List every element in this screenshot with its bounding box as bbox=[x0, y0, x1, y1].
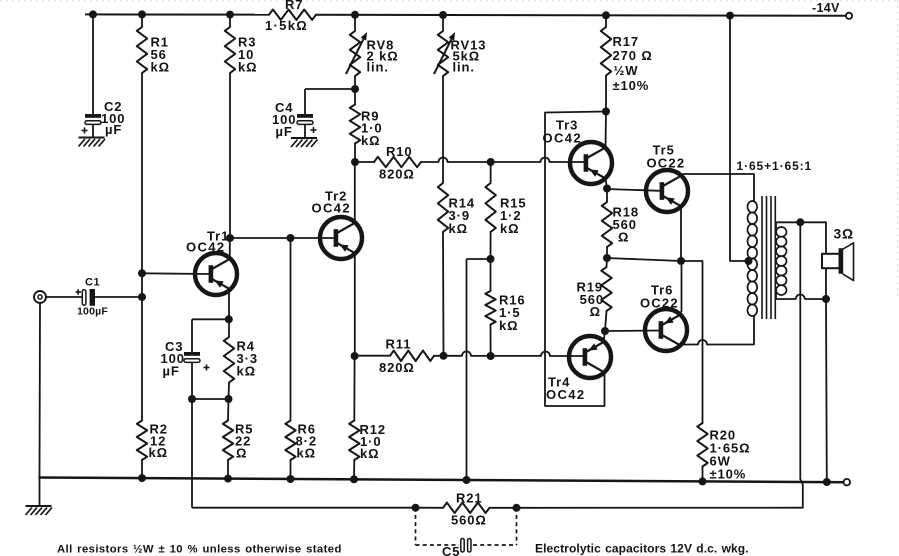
svg-text:1·65+1·65:1: 1·65+1·65:1 bbox=[737, 159, 813, 173]
resistor R6 8.2k bbox=[285, 421, 317, 461]
wire ground rail drop to earth bbox=[39, 478, 41, 506]
wire Tr3 collector up bbox=[605, 112, 608, 148]
resistor R14 3.9k bbox=[438, 183, 475, 236]
transistor Tr4 OC42 bbox=[546, 336, 611, 402]
svg-text:R7: R7 bbox=[285, 0, 303, 12]
wire R19 bottom to Tr6 base node bbox=[605, 311, 607, 331]
wire Tr4 emitter up to node bbox=[604, 331, 606, 342]
svg-text:±10%: ±10% bbox=[710, 467, 747, 482]
wire Tr5 collector to transformer primary top bbox=[681, 174, 754, 201]
svg-text:OC42: OC42 bbox=[546, 387, 586, 402]
svg-text:R10: R10 bbox=[386, 144, 413, 159]
wire feedback line secondary top to bottom rail bbox=[800, 222, 803, 507]
wire speaker return to ground rail bbox=[823, 268, 831, 486]
svg-text:270 Ω: 270 Ω bbox=[613, 48, 653, 63]
svg-text:Electrolytic capacitors 12V: Electrolytic capacitors 12V d.c. wkg. bbox=[535, 541, 749, 555]
resistor R15 1.2k bbox=[485, 162, 526, 236]
wire midpoint tap to ground rail bbox=[463, 259, 491, 484]
svg-text:kΩ: kΩ bbox=[237, 364, 256, 379]
capacitor C2 100uF bbox=[82, 99, 126, 137]
resistor R9 1.0k bbox=[350, 89, 383, 148]
transistor Tr2 OC42 bbox=[312, 189, 363, 260]
wire R14 bottom to R11 line bbox=[442, 232, 445, 356]
ground below C4 bbox=[291, 138, 318, 147]
wire Tr6 collector to transformer primary bottom bbox=[680, 316, 754, 345]
wire R16 bottom to R11 line bbox=[490, 325, 492, 357]
node R18/R19 midpoint bbox=[603, 254, 611, 262]
-14V supply terminal bbox=[812, 1, 852, 19]
svg-text:1·5kΩ: 1·5kΩ bbox=[265, 18, 308, 33]
svg-text:kΩ: kΩ bbox=[361, 133, 380, 148]
wire Tr3 emitter down to node bbox=[606, 179, 608, 189]
svg-text:µF: µF bbox=[105, 122, 122, 137]
transformer primary winding bbox=[748, 201, 758, 316]
svg-text:R21: R21 bbox=[456, 491, 483, 506]
resistor R7 1.5k inline in top rail bbox=[265, 0, 316, 33]
transistor Tr5 OC22 bbox=[646, 143, 688, 213]
wire Tr2 emitter down to R11 node bbox=[354, 254, 356, 356]
resistor R20 1.65 ohm 6W bbox=[697, 423, 750, 482]
node R15/R16 midpoint bbox=[487, 255, 495, 263]
scan artifact top edge bbox=[0, 0, 899, 2]
node Tr1 collector / R3 junction bbox=[226, 234, 234, 242]
wire C3 bottom to feedback node bbox=[188, 363, 196, 404]
wire R4 bottom to node bbox=[228, 383, 231, 400]
wire R6 to ground rail bbox=[287, 460, 295, 483]
node R15 tap on Tr3 base line bbox=[487, 158, 495, 166]
svg-text:OC22: OC22 bbox=[647, 156, 686, 171]
svg-text:OC42: OC42 bbox=[543, 131, 583, 146]
wire Tr1 emitter down bbox=[228, 291, 230, 320]
svg-text:OC22: OC22 bbox=[640, 296, 679, 311]
resistor R17 270 ohm bbox=[601, 11, 653, 93]
node R21 right / C5 branch bbox=[490, 504, 521, 512]
svg-text:R11: R11 bbox=[386, 337, 412, 352]
svg-text:kΩ: kΩ bbox=[499, 318, 518, 333]
svg-text:All resistors ½W ± 10 % unles: All resistors ½W ± 10 % unless otherwise… bbox=[57, 543, 342, 555]
resistor R10 820 ohm bbox=[355, 144, 421, 182]
wire R2 to ground rail bbox=[138, 460, 146, 482]
svg-text:C1: C1 bbox=[85, 277, 100, 289]
wire C4 to ground bbox=[304, 125, 306, 138]
wire Tr6 base from node bbox=[605, 330, 659, 333]
wire -14V top rail left section bbox=[85, 13, 269, 15]
wire feedback rail left section bbox=[192, 507, 416, 509]
resistor R4 3.3k bbox=[224, 319, 258, 382]
svg-text:kΩ: kΩ bbox=[360, 446, 379, 461]
svg-text:100µF: 100µF bbox=[77, 306, 108, 318]
wire -14V top rail right section bbox=[316, 15, 846, 16]
node Tr1 emitter junction bbox=[225, 315, 233, 323]
svg-text:Ω: Ω bbox=[590, 304, 601, 319]
svg-text:kΩ: kΩ bbox=[449, 221, 468, 236]
resistor R5 22 ohm bbox=[223, 399, 254, 461]
note all resistors rating bbox=[57, 543, 342, 555]
wire -14V rail to primary centre tap bbox=[726, 12, 748, 261]
variable resistor RV13 5k lin bbox=[434, 11, 486, 76]
wire Tr2 collector up to R9/R10 node bbox=[354, 162, 356, 222]
svg-text:820Ω: 820Ω bbox=[379, 167, 415, 182]
svg-text:kΩ: kΩ bbox=[149, 445, 168, 460]
wire C3/R4 bottom link bbox=[192, 395, 233, 403]
speaker 3 ohm bbox=[822, 227, 854, 281]
node speaker bottom junction bbox=[822, 295, 830, 303]
svg-text:±10%: ±10% bbox=[613, 78, 650, 93]
resistor R3 10k bbox=[225, 11, 258, 75]
transformer secondary winding bbox=[776, 227, 786, 295]
resistor R21 560 ohm bbox=[416, 491, 490, 528]
wire C2 to ground bbox=[92, 125, 94, 138]
node R6 tap on Tr2 base wire bbox=[287, 234, 295, 242]
resistor R11 820 ohm bbox=[355, 337, 434, 376]
svg-text:½W: ½W bbox=[614, 63, 639, 78]
resistor R12 1.0k bbox=[349, 352, 386, 461]
input jack bbox=[34, 291, 46, 303]
svg-text:kΩ: kΩ bbox=[151, 60, 170, 75]
transistor Tr3 OC42 bbox=[543, 118, 613, 185]
svg-text:kΩ: kΩ bbox=[238, 60, 257, 75]
node R21 left / C5 branch bbox=[412, 504, 420, 512]
wire feedback rail right section bbox=[517, 507, 803, 509]
wire feedback drop from C3 node to bottom feedback rail bbox=[191, 399, 193, 508]
wire Tr1 collector up to node bbox=[229, 238, 231, 258]
svg-text:820Ω: 820Ω bbox=[379, 360, 415, 375]
note electrolytic capacitors rating bbox=[535, 541, 749, 555]
wire R17 bottom to Tr3 collector node bbox=[605, 76, 607, 112]
resistor R16 1.5k bbox=[485, 259, 525, 333]
svg-text:OC42: OC42 bbox=[186, 240, 226, 255]
node Tr3 collector / R17 junction bbox=[602, 108, 610, 116]
wire R10 to Tr3 base with crossovers bbox=[421, 158, 584, 163]
node Tr3 emitter / R18 / Tr5 base bbox=[603, 185, 611, 193]
svg-text:Ω: Ω bbox=[236, 446, 247, 461]
capacitor C3 100uF emitter bypass bbox=[161, 339, 210, 379]
svg-text:kΩ: kΩ bbox=[297, 446, 316, 461]
resistor R1 56k bbox=[137, 10, 170, 74]
node feedback tap on secondary top bbox=[796, 218, 804, 226]
wire C2 branch from top rail bbox=[89, 10, 97, 114]
svg-text:kΩ: kΩ bbox=[500, 221, 519, 236]
svg-text:OC42: OC42 bbox=[312, 201, 352, 216]
wire R6 column drop bbox=[290, 238, 292, 421]
wire input jack to C1 bbox=[46, 296, 82, 298]
svg-text:lin.: lin. bbox=[367, 60, 389, 75]
svg-text:R17: R17 bbox=[613, 34, 640, 49]
resistor R2 12k bbox=[137, 421, 168, 461]
wire Tr1 collector node to Tr2 base bbox=[230, 237, 334, 239]
wire main ground rail bbox=[40, 478, 847, 483]
wire bias midpoint to emitter node bbox=[607, 258, 681, 261]
capacitor C4 100uF bbox=[272, 100, 317, 139]
wire R11 to Tr4 base with crossovers bbox=[434, 351, 583, 356]
wire RV8 node to C4 bbox=[305, 89, 355, 114]
wire Tr5 base from Tr3 emitter node bbox=[607, 189, 660, 191]
node transformer centre tap bbox=[745, 257, 753, 265]
scan artifact right edge bbox=[897, 0, 899, 300]
capacitor C5 in dashed alternative branch bbox=[416, 508, 517, 556]
node Tr5/Tr6 emitter junction bbox=[677, 257, 685, 265]
svg-text:-14V: -14V bbox=[812, 1, 840, 15]
svg-text:µF: µF bbox=[163, 364, 180, 379]
wire secondary top to speaker bbox=[776, 222, 826, 254]
wire C1 to base divider node bbox=[95, 293, 146, 301]
svg-text:3Ω: 3Ω bbox=[834, 227, 854, 242]
wire Tr1 base from divider bbox=[138, 269, 209, 277]
variable resistor RV8 2k lin bbox=[346, 11, 399, 76]
wire R18 bottom to midpoint bbox=[606, 247, 608, 258]
wire R1 bottom to R2 top bbox=[141, 73, 143, 421]
svg-text:C5: C5 bbox=[442, 544, 460, 556]
svg-text:560Ω: 560Ω bbox=[451, 513, 487, 528]
node R16 junction on R11 line bbox=[487, 352, 495, 360]
wire Tr1 emitter node to C3 bbox=[192, 319, 229, 352]
wire R9 bottom to R10 node bbox=[351, 144, 359, 167]
svg-text:µF: µF bbox=[276, 124, 293, 139]
transformer ratio label bbox=[737, 159, 813, 173]
wire RV8 bottom to node bbox=[351, 76, 359, 93]
ground symbol bottom left bbox=[26, 506, 53, 515]
transformer core bbox=[762, 196, 775, 319]
transistor Tr1 OC42 bbox=[186, 229, 237, 296]
ground return terminal bbox=[844, 479, 851, 486]
ground below C2 bbox=[79, 138, 106, 147]
wire secondary bottom bbox=[776, 293, 826, 299]
wire Tr3 collector to Tr4 collector loop bbox=[545, 112, 606, 407]
wire input jack ground drop bbox=[39, 303, 42, 478]
wire Tr5 emitter down to output node bbox=[680, 207, 682, 261]
resistor R18 560 ohm bbox=[602, 189, 639, 248]
wire R3 bottom to Tr1 collector node bbox=[229, 73, 231, 238]
node R14 junction on R11 line bbox=[440, 352, 448, 360]
resistor R19 560 ohm bbox=[576, 258, 611, 319]
capacitor C1 100uF input coupling bbox=[76, 277, 109, 318]
wire R15 bottom to mid node bbox=[490, 232, 492, 259]
transistor Tr6 OC22 bbox=[640, 283, 687, 352]
svg-text:lin.: lin. bbox=[453, 60, 475, 75]
wire R12 to ground rail bbox=[350, 460, 358, 483]
wire emitter node to R20 bbox=[681, 261, 703, 423]
wire R20 to ground rail bbox=[699, 467, 707, 486]
wire Tr6 emitter up to output node bbox=[680, 261, 682, 315]
wire RV13 bottom to R14 bbox=[442, 76, 444, 183]
node Tr4 emitter / R19 / Tr6 base bbox=[601, 327, 609, 335]
wire R5 to ground rail bbox=[224, 460, 232, 483]
svg-text:Ω: Ω bbox=[618, 230, 629, 245]
